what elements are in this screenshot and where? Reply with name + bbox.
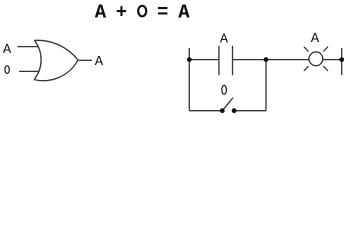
svg-text:A: A [3, 43, 12, 58]
svg-text:+: + [116, 2, 127, 24]
svg-text:A: A [95, 54, 104, 70]
svg-text:A: A [95, 2, 107, 24]
svg-text:A: A [220, 32, 229, 47]
svg-text:=: = [157, 2, 168, 24]
svg-text:A: A [178, 2, 190, 24]
svg-text:A: A [311, 31, 320, 47]
